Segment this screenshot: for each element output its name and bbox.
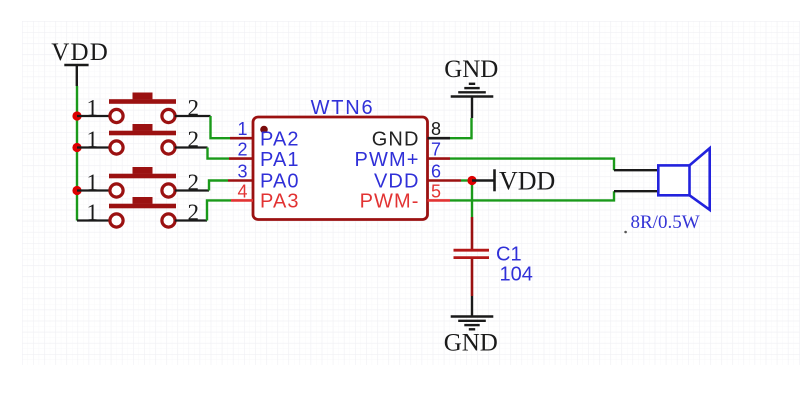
S4 button cap (133, 197, 153, 204)
svg-text:8: 8 (431, 119, 441, 139)
wire junction to capacitor (471, 181, 473, 218)
S3 button cap (133, 167, 153, 174)
svg-text:4: 4 (237, 181, 247, 201)
S4 pin 2 lead (175, 219, 207, 221)
svg-text:C1: C1 (496, 244, 522, 266)
pin 3 stub (228, 179, 253, 182)
capacitor C1 (454, 217, 490, 296)
wire VDD vertical bus (76, 86, 78, 221)
pin 8 stub (428, 137, 451, 140)
pin 5 stub (428, 199, 451, 202)
S1 actuator bar (109, 99, 176, 104)
wire pin 5 to speaker (450, 191, 614, 200)
junction dot row2 (72, 143, 81, 152)
S3 pin 1 lead (77, 189, 110, 191)
pin 7 stub (428, 157, 451, 160)
svg-text:PA0: PA0 (260, 171, 300, 193)
svg-text:2: 2 (237, 140, 247, 160)
svg-text:GND: GND (444, 56, 498, 83)
S3 actuator bar (109, 174, 176, 179)
push button S2 (77, 124, 208, 154)
speaker LS1 body (658, 165, 689, 195)
earth bars (451, 315, 494, 317)
ground GND (bottom) (444, 296, 498, 357)
svg-text:6: 6 (431, 162, 441, 182)
svg-text:5: 5 (431, 181, 441, 201)
S2 pin 2 lead (175, 146, 208, 148)
svg-text:1: 1 (87, 200, 99, 225)
S4 contact circle left (110, 214, 123, 227)
ground GND (top) (444, 56, 498, 118)
power port VDD (right) (472, 167, 555, 196)
power bar (493, 169, 496, 191)
svg-text:GND: GND (372, 128, 420, 150)
S4 actuator bar (109, 204, 176, 209)
S1 pin 1 lead (77, 115, 110, 117)
C1 bottom lead (471, 259, 474, 296)
S3 contact circle left (110, 184, 123, 197)
op IC U1 WTN6 body (253, 117, 428, 220)
C1 top lead (471, 217, 474, 249)
svg-text:PWM+: PWM+ (355, 149, 420, 171)
ground stem (471, 296, 473, 317)
svg-text:VDD: VDD (499, 167, 555, 196)
junction dot row3 (72, 186, 81, 195)
svg-text:PA1: PA1 (260, 149, 300, 171)
pin 2 stub (229, 157, 253, 160)
S1 button cap (133, 93, 153, 100)
power stem (76, 65, 78, 86)
pin 1 stub (230, 137, 253, 140)
svg-text:1: 1 (87, 127, 99, 152)
S2 button cap (133, 124, 153, 131)
svg-text:7: 7 (431, 140, 441, 160)
S1 contact circle left (110, 109, 123, 122)
push button S1 (77, 93, 211, 123)
S2 contact circle right (162, 141, 175, 154)
wire S3 to pin3 (209, 181, 228, 191)
wire pin 7 to speaker (450, 159, 614, 171)
svg-text:PWM-: PWM- (360, 191, 420, 213)
svg-text:WTN6: WTN6 (311, 97, 375, 119)
S2 contact circle left (110, 141, 123, 154)
wire top GND to pin 8 (450, 118, 472, 138)
svg-text:3: 3 (237, 162, 247, 182)
svg-text:GND: GND (444, 330, 498, 357)
svg-text:1: 1 (87, 96, 99, 121)
S4 contact circle right (162, 214, 175, 227)
C1 plates (454, 249, 490, 252)
pin1 marker dot (260, 126, 268, 134)
svg-text:1: 1 (237, 119, 247, 139)
svg-text:8R/0.5W: 8R/0.5W (631, 212, 700, 233)
svg-text:PA3: PA3 (260, 191, 300, 213)
wire S2 to pin2 (208, 148, 230, 159)
S1 pin 2 lead (175, 115, 211, 117)
S1 contact circle right (162, 109, 175, 122)
junction dot row1 (72, 111, 81, 120)
svg-text:VDD: VDD (374, 171, 420, 193)
push button S4 (77, 197, 207, 227)
S3 contact circle right (162, 184, 175, 197)
svg-text:PA2: PA2 (260, 128, 300, 150)
stray dot (624, 231, 627, 234)
pin 4 stub (231, 199, 253, 202)
wire S1 to pin1 (211, 116, 231, 138)
S3 pin 2 lead (175, 189, 209, 191)
S2 pin 1 lead (77, 146, 110, 148)
speaker LS1 stub top (614, 169, 659, 171)
power stem (472, 179, 495, 181)
S2 actuator bar (109, 131, 176, 136)
speaker LS1 stub bottom (614, 190, 659, 192)
S4 pin 1 lead (77, 219, 110, 221)
wire pin 6 to VDD port (461, 179, 472, 181)
junction dot pin6 (467, 176, 476, 185)
pin 6 stub (428, 179, 462, 182)
wire S4 to pin4 (207, 200, 231, 220)
svg-text:VDD: VDD (51, 39, 109, 66)
power bar (64, 64, 88, 67)
svg-text:1: 1 (87, 170, 99, 195)
ground stem (471, 97, 473, 119)
speaker LS1 cone (690, 148, 710, 210)
push button S3 (77, 167, 209, 197)
power port VDD (top-left) (51, 39, 109, 86)
svg-text:104: 104 (500, 264, 533, 286)
earth bars (469, 83, 475, 85)
